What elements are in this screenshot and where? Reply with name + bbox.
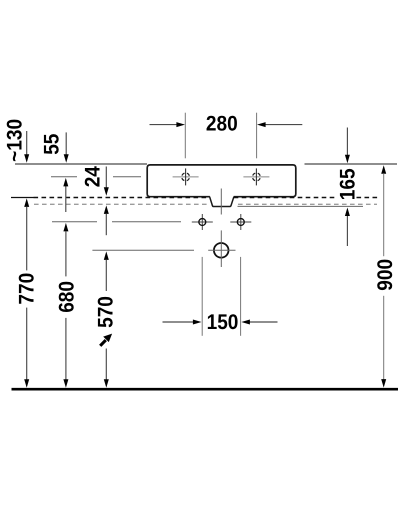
dimension 280: right arrow [266, 124, 303, 126]
fixing holes level extension line (dimension 680 upper boundary) [52, 221, 97, 223]
dark dashed line (basin bottom / mounting level), solid stub at left [11, 197, 34, 199]
washbasin outline (front view, rounded rect with bottom gap at drain) [147, 165, 296, 197]
gray dashed line (bracket level) [34, 203, 210, 205]
svg-text:770: 770 [16, 273, 39, 305]
dimension 280: extension lines [184, 113, 186, 159]
faucet level extension line (dimension 24 upper boundary) [51, 176, 77, 178]
svg-text:165: 165 [337, 168, 360, 200]
dimension 24: down arrow at dark dashed line [105, 167, 107, 189]
svg-text:150: 150 [207, 311, 239, 334]
svg-text:~130: ~130 [4, 119, 27, 162]
svg-text:570: 570 [94, 296, 117, 328]
svg-text:280: 280 [206, 112, 238, 135]
dimension 680: line with up arrow at fixing level and down arrow at floor [63, 223, 68, 232]
drain circle vertical centerline [220, 230, 222, 267]
faucet hole left: centerlines + dashed circle [173, 176, 199, 178]
wall reference line right (basin top level) [305, 163, 398, 165]
fixing hole left [192, 221, 213, 223]
dimension 280: left arrow [150, 124, 177, 126]
dimension 165: top arrow down to basin top level [346, 128, 348, 156]
faucet hole right: centerlines + dashed circle [243, 176, 269, 178]
dimension 24: up arrow at faucet level line [65, 186, 67, 212]
drain bottom extension line (dimension 165 lower boundary) [238, 205, 364, 207]
dimension 570: up arrow at drain centerline, down arrow at floor [104, 251, 109, 260]
drain outlet trapezoid [210, 197, 234, 207]
svg-text:55: 55 [41, 133, 64, 154]
fixing hole right [230, 221, 251, 223]
wall reference line left (basin top level) [15, 163, 147, 165]
dimension 570: up arrow at gray dashed level [104, 205, 109, 214]
drain pipe circle [214, 243, 229, 258]
dimension 55: arrow down to basin top level [65, 132, 67, 154]
drain trapezoid vertical centerline [220, 189, 222, 215]
svg-text:900: 900 [374, 259, 397, 291]
dimension 150: left arrow [163, 321, 194, 323]
dimension 900: up arrow at basin top level, down arrow at floor [381, 165, 386, 174]
dimension 165: bottom arrow up to drain bottom line [346, 216, 348, 247]
dimension ~130: arrow down to basin top level [26, 131, 28, 155]
svg-text:680: 680 [55, 281, 78, 313]
svg-text:24: 24 [82, 166, 105, 187]
floor line [12, 388, 399, 391]
dimension 770: line with up arrow at dashed level and down arrow at floor [24, 198, 29, 207]
dimension 150: extension lines [201, 257, 203, 336]
dimension 150: right arrow [250, 321, 278, 323]
drain circle horizontal centerline (dimension 570 upper boundary) [92, 249, 194, 251]
dimension 570: diagonal pointer arrow [100, 340, 106, 346]
